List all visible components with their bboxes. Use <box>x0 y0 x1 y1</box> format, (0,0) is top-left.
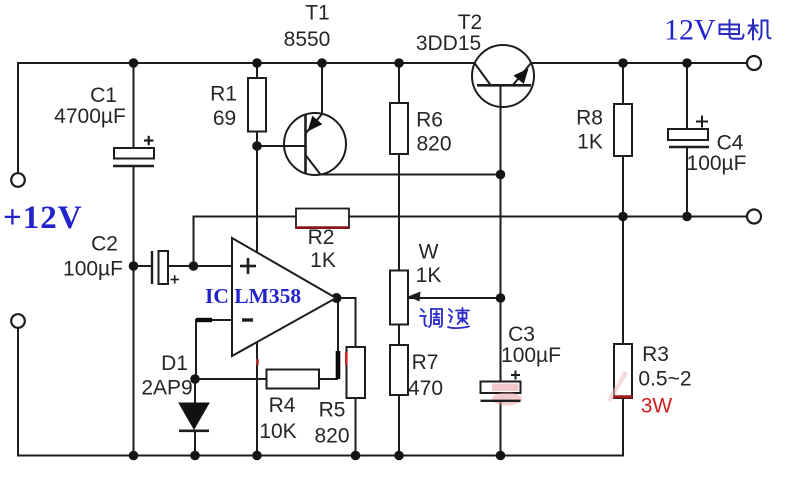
node C1 top <box>129 58 139 68</box>
wire R8 column <box>622 63 624 104</box>
wire C1 bottom to ground <box>133 165 135 456</box>
node C4 top <box>682 58 692 68</box>
op-amp U1 LM358 <box>232 238 336 356</box>
resistor R4 <box>267 370 320 389</box>
svg-text:T1: T1 <box>305 2 330 25</box>
svg-text:R6: R6 <box>416 109 443 132</box>
resistor R5 red pen tick <box>345 352 348 365</box>
svg-text:R2: R2 <box>308 226 335 249</box>
wire top rail left segment <box>18 63 474 173</box>
op-amp plus input symbol <box>240 258 256 274</box>
svg-text:820: 820 <box>416 133 451 156</box>
wire C2 left lead <box>134 265 153 267</box>
svg-text:820: 820 <box>314 425 349 448</box>
wire top rail right segment <box>531 62 747 64</box>
svg-text:D1: D1 <box>161 352 188 375</box>
svg-text:4700µF: 4700µF <box>54 105 126 128</box>
svg-text:W: W <box>419 241 439 264</box>
node C2 left tap <box>129 261 139 271</box>
node ground D1 <box>190 451 200 461</box>
diode D1 2AP9 <box>179 403 209 431</box>
resistor R3 <box>614 344 632 398</box>
wire op-amp output down to R4 <box>337 298 339 379</box>
svg-text:R5: R5 <box>319 399 346 422</box>
wire R8/R3 junction down to R3 <box>622 217 624 345</box>
resistor R2 <box>296 209 349 229</box>
wire R7 to ground <box>398 395 400 456</box>
terminal +12V top left <box>11 173 25 187</box>
node ground C3 <box>496 451 506 461</box>
svg-text:C2: C2 <box>91 233 118 256</box>
wire R6 column <box>398 63 400 103</box>
wire R3 to bottom rail corner <box>622 398 623 456</box>
node R1 top <box>252 58 262 68</box>
svg-text:IC LM358: IC LM358 <box>205 284 301 308</box>
terminal bottom left <box>11 314 25 328</box>
node R1 bottom / T1 base <box>252 141 262 151</box>
potentiometer W wiper arrow <box>408 292 421 302</box>
svg-text:R1: R1 <box>210 83 237 106</box>
terminal motor top right <box>747 56 761 70</box>
svg-text:69: 69 <box>213 107 236 130</box>
svg-text:1K: 1K <box>416 264 442 287</box>
node T1 emitter top <box>317 58 327 68</box>
svg-text:470: 470 <box>408 377 443 400</box>
node C4 mid rail <box>682 212 692 222</box>
wire D1 cathode to ground <box>194 431 196 456</box>
wire C1 branch vertical <box>133 63 135 148</box>
capacitor C4 <box>668 116 709 148</box>
wire op-amp output to R5 <box>336 298 356 347</box>
svg-text:0.5~2: 0.5~2 <box>638 368 691 391</box>
potentiometer W body <box>390 271 408 325</box>
svg-text:R3: R3 <box>642 343 669 366</box>
svg-text:1K: 1K <box>577 131 603 154</box>
wire D1 junction to R4 <box>196 378 267 380</box>
svg-text:12V: 12V <box>664 14 716 47</box>
bold mark on minus wire <box>196 318 212 322</box>
node op-amp + input <box>189 261 199 271</box>
svg-text:R7: R7 <box>412 351 439 374</box>
svg-text:C3: C3 <box>508 323 535 346</box>
node D1 / R4 / minus input <box>190 374 200 384</box>
wire C2 right lead to + input <box>168 265 232 267</box>
node dots <box>129 58 692 460</box>
wire C3 to ground <box>500 402 502 456</box>
svg-text:C1: C1 <box>90 84 117 107</box>
svg-text:10K: 10K <box>259 420 296 443</box>
terminal motor mid right <box>747 210 761 224</box>
svg-text:3DD15: 3DD15 <box>416 32 481 55</box>
wire R5 to ground <box>355 398 357 456</box>
transistor T2 3DD15 <box>472 45 534 107</box>
wire R1 column vertical <box>256 63 258 78</box>
wire T1 emitter from rail <box>321 63 323 114</box>
hanzi su (speed) of tiaosu blue <box>448 308 469 328</box>
wire mid rail <box>194 217 748 267</box>
svg-text:8550: 8550 <box>284 28 331 51</box>
resistor R2 dark red underline <box>296 226 350 229</box>
resistor R8 <box>614 104 632 156</box>
resistor R1 <box>248 78 266 132</box>
svg-text:T2: T2 <box>458 11 483 34</box>
wire R4 right lead <box>319 378 338 380</box>
wire W to R7 <box>398 325 400 346</box>
wire T2 base / C3 column <box>500 85 502 381</box>
wire op-amp minus input <box>196 320 232 379</box>
svg-text:1K: 1K <box>310 249 336 272</box>
wire C4 column <box>686 63 688 129</box>
transistor T1 8550 <box>284 113 346 175</box>
op-amp minus input symbol <box>242 318 253 321</box>
resistor R5 <box>347 347 366 398</box>
red tick near R4 top <box>256 359 259 365</box>
svg-text:3W: 3W <box>641 395 673 418</box>
svg-text:100µF: 100µF <box>501 344 561 367</box>
node ground R7 <box>394 451 404 461</box>
svg-text:+12V: +12V <box>3 200 83 236</box>
node ground R5 <box>351 451 361 461</box>
node ground C1 <box>129 451 139 461</box>
node R8 mid rail <box>618 212 628 222</box>
capacitor C3 <box>481 371 523 406</box>
resistor R3 red pen marks <box>609 372 626 401</box>
hanzi ji (machine) of 12V dianji <box>749 20 771 40</box>
node ground R1 column <box>252 451 262 461</box>
capacitor C1 <box>113 136 154 166</box>
wire D1 anode lead <box>194 379 196 403</box>
wire R1 junction to ground (passes under op-amp) <box>256 146 258 456</box>
node op-amp output <box>332 293 342 303</box>
svg-text:R8: R8 <box>576 107 603 130</box>
wire W wiper to C3 line <box>408 297 501 299</box>
svg-text:2AP9: 2AP9 <box>141 377 192 400</box>
node T2 base / T1 collector <box>496 170 506 180</box>
node R6 top <box>394 58 404 68</box>
wire T1 collector to T2 base <box>321 174 502 176</box>
resistor R6 <box>390 103 408 154</box>
bold mark on output-R4 wire <box>336 351 341 379</box>
hanzi dian (electric) of 12V dianji <box>720 20 744 39</box>
svg-text:100µF: 100µF <box>687 152 747 175</box>
wire T1 base <box>257 145 306 147</box>
svg-text:100µF: 100µF <box>63 258 123 281</box>
hanzi tiao (adjust) of tiaosu blue <box>420 309 442 327</box>
svg-text:R4: R4 <box>269 394 296 417</box>
node wiper / C3 <box>496 293 506 303</box>
node R8 top <box>618 58 628 68</box>
wire bottom rail with left terminal drop <box>18 328 623 456</box>
capacitor C2 <box>152 251 179 284</box>
resistor R7 <box>390 345 408 395</box>
